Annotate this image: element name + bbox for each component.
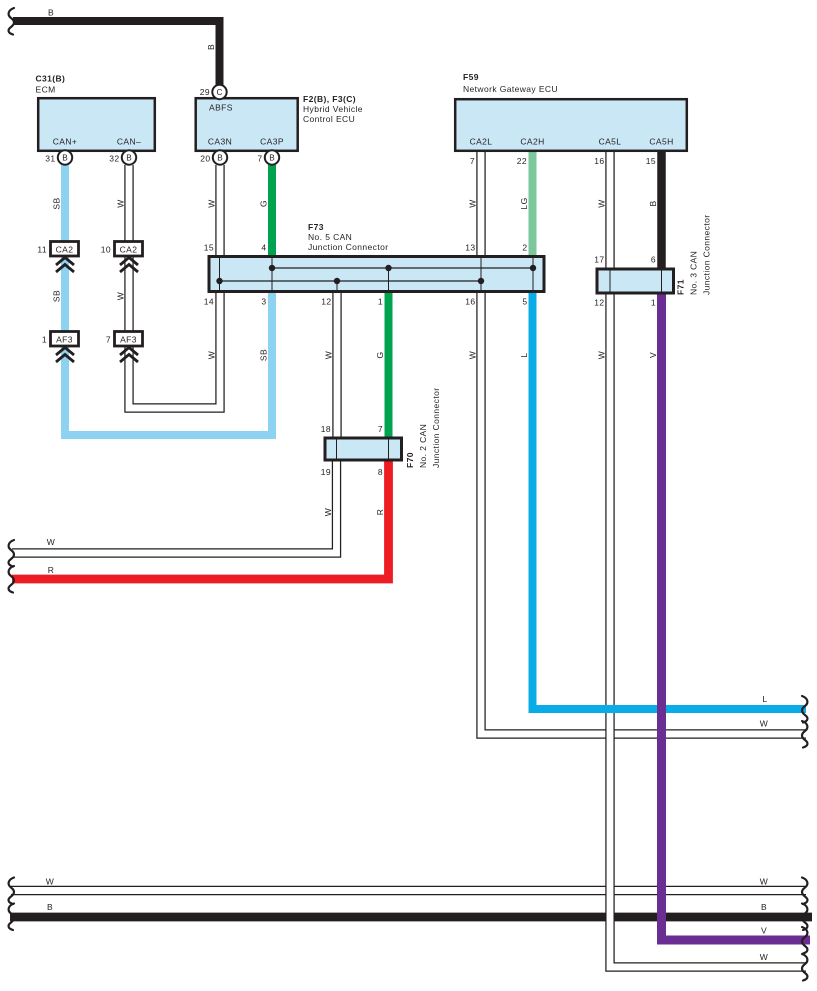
pin circle B (ECM 32) [122, 150, 136, 164]
svg-text:W: W [116, 199, 126, 207]
svg-text:32: 32 [109, 154, 119, 164]
svg-text:CA2L: CA2L [470, 137, 493, 147]
F70 box No.2 CAN junction connector [325, 438, 402, 460]
break left wire W mid [9, 540, 14, 567]
F70 interior pin line x=336.5 [336, 440, 338, 459]
svg-text:F73: F73 [308, 222, 324, 232]
svg-text:W: W [468, 351, 478, 359]
wire W F71 pin 12 down and right to edge (outline) [610, 292, 806, 967]
pin circle B (ABFS 20) [213, 150, 227, 164]
svg-text:SB: SB [52, 290, 62, 302]
wire W ABFS CA3N pin20 to F73 pin 15 (white core) [217, 165, 224, 256]
wire W bottom horizontal full width (outline) [11, 886, 806, 895]
wire W ECM CAN- pin32 (white core) [129, 165, 220, 408]
svg-text:16: 16 [594, 156, 604, 166]
svg-text:B: B [269, 154, 275, 163]
wire SB ECM CAN+ pin31 down, right, up to F73 pin 3 [65, 164, 272, 435]
wire W ECM CAN- pin32 down, right, up to F73 pin 14 (outline) [129, 165, 220, 408]
pin circle B (ABFS 7) [265, 150, 279, 164]
svg-text:1: 1 [378, 297, 383, 307]
svg-text:11: 11 [37, 245, 47, 255]
F73 junction dot pin1 [385, 265, 391, 271]
svg-text:B: B [761, 902, 767, 912]
wire L F73 pin 5 down and right to edge [533, 292, 807, 709]
svg-text:No. 3 CAN: No. 3 CAN [689, 251, 699, 295]
svg-text:Control ECU: Control ECU [303, 114, 355, 124]
wire B thick from top-left break to ABFS pin 29 [13, 21, 220, 85]
svg-text:W: W [323, 508, 333, 516]
svg-text:2: 2 [522, 243, 527, 253]
svg-text:C: C [217, 88, 223, 97]
svg-text:W: W [324, 351, 334, 359]
svg-text:G: G [259, 200, 269, 207]
svg-text:20: 20 [200, 154, 210, 164]
svg-text:Junction Connector: Junction Connector [702, 215, 712, 295]
vertical text block F71 No.3 CAN Junction Connector [676, 215, 712, 295]
svg-text:31: 31 [45, 154, 55, 164]
svg-text:C31(B): C31(B) [36, 74, 66, 84]
svg-text:W: W [760, 952, 768, 962]
svg-text:ECM: ECM [36, 85, 56, 95]
pin circle B (ECM 31) [58, 150, 72, 164]
break right wire B [802, 904, 807, 931]
F70 interior pin line x=388.5 [388, 440, 390, 459]
svg-text:13: 13 [465, 243, 475, 253]
svg-text:CA3N: CA3N [208, 137, 232, 147]
svg-text:Junction Connector: Junction Connector [308, 242, 388, 252]
svg-text:B: B [48, 8, 54, 18]
ECM box C31(B) [38, 98, 155, 151]
connector AF3 pin 7 [115, 332, 143, 363]
svg-text:Junction Connector: Junction Connector [431, 388, 441, 468]
svg-text:No. 2 CAN: No. 2 CAN [418, 424, 428, 468]
wire B bottom horizontal full width [10, 913, 812, 922]
break right wire W3 [802, 954, 807, 981]
svg-text:F70: F70 [405, 452, 415, 468]
svg-text:16: 16 [465, 297, 475, 307]
wire W F59 CA2L pin7 to F73 pin 13 (white core) [478, 152, 485, 256]
svg-text:1: 1 [42, 335, 47, 345]
svg-text:22: 22 [517, 156, 527, 166]
svg-text:AF3: AF3 [120, 335, 137, 345]
F59 box Network Gateway ECU [455, 99, 687, 151]
svg-text:SB: SB [52, 197, 62, 209]
pin circle C (ABFS 29) [212, 85, 226, 99]
wire W F73 pin 12 to F70 pin 18 (outline) [332, 292, 341, 438]
svg-text:W: W [116, 292, 126, 300]
connector CA2 pin 10 [115, 242, 143, 273]
connector AF3 pin 1 [51, 332, 79, 363]
wire B F59 CA5H pin15 to F71 pin 6 [657, 152, 666, 269]
svg-text:W: W [760, 877, 768, 887]
svg-text:5: 5 [522, 297, 527, 307]
svg-text:W: W [760, 719, 768, 729]
F73 interior pin line x=481 [480, 258, 482, 290]
F71 interior pin line x=661.5 [661, 271, 663, 292]
svg-text:15: 15 [646, 156, 656, 166]
wire R F70 pin 8 down and left to edge [12, 461, 389, 579]
svg-text:CA5H: CA5H [649, 137, 673, 147]
wire G ABFS CA3P pin7 to F73 pin 4 [268, 165, 276, 256]
F73 box No.5 CAN junction connector [209, 257, 544, 292]
break right wire W2 [802, 878, 807, 905]
TEXT-LAYER [36, 72, 674, 252]
break right wire L [802, 696, 807, 723]
svg-text:7: 7 [378, 424, 383, 434]
ABFS box [196, 98, 298, 151]
wire LG F59 CA2H pin22 to F73 pin 2 [529, 152, 537, 256]
wire W F73 pin 12 to F70 pin 18 (white core) [334, 292, 341, 438]
svg-text:W: W [207, 199, 217, 207]
wire W bottom horizontal full width (white core) [11, 887, 806, 894]
F71 interior pin line x=610 [609, 271, 611, 292]
F73 interior pin line x=219.5 [219, 258, 221, 290]
connector CA2 pin 11 [51, 242, 79, 273]
svg-text:LG: LG [519, 197, 529, 209]
svg-text:L: L [762, 694, 767, 704]
wire W F70 pin 19 down and left to edge (white core) [12, 461, 337, 553]
svg-text:G: G [375, 351, 385, 358]
wire W F73 pin 16 down and right to edge (white core) [481, 292, 806, 734]
F73 upper bus line [272, 267, 533, 269]
wire W F59 CA5L pin16 to F71 pin 17 (white core) [607, 152, 614, 269]
F73 junction dot pin15 [216, 278, 222, 284]
wire W F71 pin 12 down and right to edge (white core) [610, 292, 806, 967]
svg-text:6: 6 [651, 255, 656, 265]
F73 lower bus line [220, 280, 482, 282]
svg-text:W: W [47, 537, 55, 547]
svg-text:12: 12 [321, 297, 331, 307]
svg-text:W: W [597, 199, 607, 207]
svg-text:CA3P: CA3P [260, 137, 284, 147]
svg-text:R: R [48, 565, 55, 575]
svg-text:W: W [46, 877, 54, 887]
svg-text:CA2: CA2 [120, 245, 138, 255]
F73 interior pin line x=337 [336, 281, 338, 290]
svg-text:AF3: AF3 [56, 335, 73, 345]
svg-text:10: 10 [101, 245, 111, 255]
svg-text:W: W [597, 351, 607, 359]
svg-text:W: W [468, 199, 478, 207]
wire W ABFS CA3N pin20 to F73 pin 15 (outline) [215, 165, 224, 256]
svg-text:W: W [207, 351, 217, 359]
svg-text:F59: F59 [463, 72, 479, 82]
wire W F70 pin 19 down and left to edge (outline) [12, 461, 337, 553]
svg-text:B: B [206, 44, 216, 50]
wire W F73 pin 16 down and right to edge (outline) [481, 292, 806, 734]
break left wire B bottom [9, 904, 14, 931]
svg-text:No. 5 CAN: No. 5 CAN [308, 232, 352, 242]
svg-text:4: 4 [261, 243, 266, 253]
svg-text:14: 14 [204, 297, 214, 307]
F71 box No.3 CAN junction connector [597, 269, 674, 293]
svg-text:V: V [648, 352, 658, 358]
svg-text:L: L [519, 352, 529, 357]
F73 junction dot pin4 [269, 265, 275, 271]
svg-text:B: B [126, 154, 132, 163]
svg-text:7: 7 [470, 156, 475, 166]
F73 junction dot pin13 [478, 278, 484, 284]
svg-text:15: 15 [204, 243, 214, 253]
svg-text:ABFS: ABFS [209, 103, 233, 113]
vertical text block F70 No.2 CAN Junction Connector [405, 388, 441, 468]
svg-text:CA2H: CA2H [520, 137, 544, 147]
svg-text:Network Gateway ECU: Network Gateway ECU [463, 84, 558, 94]
svg-text:7: 7 [257, 154, 262, 164]
svg-text:F71: F71 [676, 279, 686, 295]
F73 junction dot pin12 [334, 278, 340, 284]
svg-text:V: V [761, 926, 767, 936]
break right wire V [802, 927, 807, 954]
break left wire W bottom [9, 878, 14, 905]
wire G F73 pin 1 to F70 pin 7 [385, 292, 393, 438]
svg-text:18: 18 [321, 424, 331, 434]
svg-text:CA5L: CA5L [599, 137, 622, 147]
svg-text:17: 17 [594, 255, 604, 265]
svg-text:CAN–: CAN– [117, 137, 141, 147]
svg-text:1: 1 [651, 298, 656, 308]
svg-text:12: 12 [594, 298, 604, 308]
svg-text:CA2: CA2 [56, 245, 74, 255]
wire W F59 CA2L pin7 to F73 pin 13 (outline) [476, 152, 485, 256]
svg-text:B: B [47, 902, 53, 912]
svg-text:SB: SB [259, 349, 269, 361]
svg-text:B: B [62, 154, 68, 163]
svg-text:Hybrid Vehicle: Hybrid Vehicle [303, 104, 363, 114]
svg-text:CAN+: CAN+ [53, 137, 78, 147]
svg-text:19: 19 [321, 467, 331, 477]
F73 interior pin line x=272 [271, 258, 273, 290]
svg-text:7: 7 [106, 335, 111, 345]
svg-text:F2(B), F3(C): F2(B), F3(C) [303, 94, 356, 104]
F73 junction dot pin2 [530, 265, 536, 271]
svg-text:B: B [217, 154, 223, 163]
svg-text:R: R [375, 509, 385, 516]
svg-text:29: 29 [200, 87, 210, 97]
wire W F59 CA5L pin16 to F71 pin 17 (outline) [605, 152, 614, 269]
break left wire B top [9, 8, 14, 35]
svg-text:3: 3 [261, 297, 266, 307]
svg-text:8: 8 [378, 467, 383, 477]
F73 interior pin line x=533 [532, 258, 534, 290]
svg-text:B: B [648, 200, 658, 206]
break left wire R [9, 566, 14, 593]
wire V F71 pin 1 down and right to edge [662, 292, 811, 940]
F73 interior pin line x=388.5 [388, 268, 390, 290]
break right wire W [802, 721, 807, 748]
